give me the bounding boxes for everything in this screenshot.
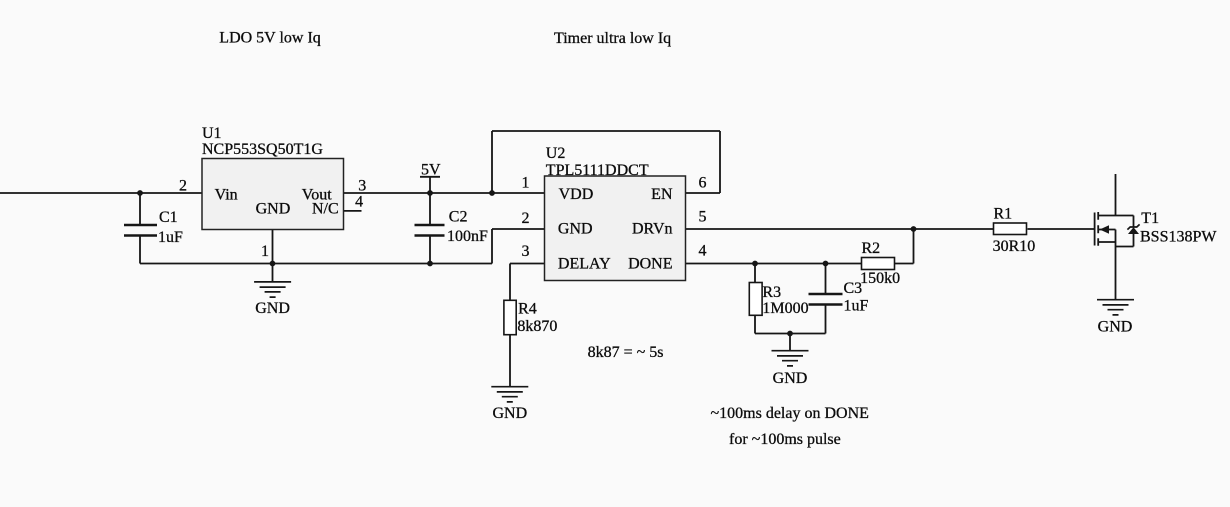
svg-text:for ~100ms pulse: for ~100ms pulse	[729, 431, 841, 448]
svg-text:8k87 = ~ 5s: 8k87 = ~ 5s	[588, 344, 664, 361]
svg-text:8k870: 8k870	[517, 318, 557, 335]
svg-text:GND: GND	[255, 300, 290, 317]
svg-text:DONE: DONE	[628, 255, 672, 272]
svg-text:4: 4	[699, 243, 707, 260]
svg-text:2: 2	[179, 178, 187, 195]
svg-text:1M000: 1M000	[762, 300, 808, 317]
svg-text:T1: T1	[1141, 210, 1159, 227]
svg-text:30R10: 30R10	[993, 238, 1036, 255]
svg-text:GND: GND	[492, 405, 527, 422]
svg-text:GND: GND	[256, 201, 291, 218]
svg-text:GND: GND	[558, 221, 593, 238]
svg-text:R4: R4	[518, 301, 537, 318]
svg-text:LDO 5V low Iq: LDO 5V low Iq	[219, 30, 320, 47]
svg-text:C2: C2	[449, 209, 468, 226]
svg-text:6: 6	[699, 175, 707, 192]
svg-text:NCP553SQ50T1G: NCP553SQ50T1G	[202, 141, 323, 158]
svg-text:1uF: 1uF	[158, 229, 183, 246]
svg-text:R3: R3	[762, 284, 781, 301]
svg-text:5: 5	[699, 209, 707, 226]
svg-text:3: 3	[522, 243, 530, 260]
svg-text:Vin: Vin	[215, 187, 238, 204]
svg-text:1uF: 1uF	[844, 298, 869, 315]
svg-text:N/C: N/C	[312, 201, 339, 218]
svg-text:5V: 5V	[421, 162, 441, 179]
svg-text:1: 1	[522, 175, 530, 192]
svg-text:3: 3	[358, 178, 366, 195]
svg-text:2: 2	[522, 210, 530, 227]
svg-text:150k0: 150k0	[860, 270, 900, 287]
svg-text:DRVn: DRVn	[632, 221, 673, 238]
svg-text:Timer ultra low Iq: Timer ultra low Iq	[554, 30, 671, 47]
svg-text:1: 1	[261, 243, 269, 260]
svg-text:VDD: VDD	[559, 186, 594, 203]
svg-text:U2: U2	[546, 145, 566, 162]
svg-text:C1: C1	[159, 209, 178, 226]
svg-text:GND: GND	[1098, 319, 1133, 336]
svg-text:EN: EN	[651, 186, 673, 203]
svg-text:GND: GND	[773, 370, 808, 387]
svg-text:DELAY: DELAY	[558, 255, 611, 272]
svg-text:100nF: 100nF	[447, 228, 488, 245]
svg-text:R1: R1	[994, 206, 1013, 223]
svg-text:U1: U1	[202, 125, 222, 142]
svg-text:TPL5111DDCT: TPL5111DDCT	[546, 162, 649, 179]
svg-text:R2: R2	[862, 240, 881, 257]
svg-text:4: 4	[355, 193, 363, 210]
svg-text:BSS138PW: BSS138PW	[1140, 229, 1217, 246]
svg-text:~100ms delay on DONE: ~100ms delay on DONE	[711, 405, 869, 422]
